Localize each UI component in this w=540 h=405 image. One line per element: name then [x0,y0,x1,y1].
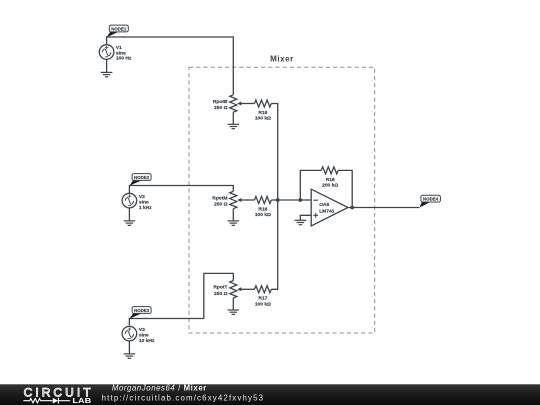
voltage source V1 (sine) [99,45,114,60]
resistor R16 100 kOhm [255,197,272,219]
svg-text:RpotM: RpotM [212,195,227,201]
wire RpotT wiper to R17 [240,288,255,290]
svg-text:R17: R17 [258,296,267,302]
svg-text:RpotB: RpotB [213,99,228,105]
svg-text:LM741: LM741 [319,209,335,215]
svg-text:NODE4: NODE4 [423,197,439,202]
svg-text:250 Ω: 250 Ω [214,291,228,297]
footer black bar [0,384,540,405]
potentiometer RpotM 250 Ohm [212,191,241,208]
CircuitLab logo resistor-diode wire [23,398,70,404]
wire NODE1 to RpotB top [107,37,234,95]
voltage source V2 (sine) [122,193,137,208]
resistor R18 200 kOhm [321,167,338,189]
potentiometer RpotT 250 Ohm [213,281,241,298]
wire RpotM wiper to R16 [240,199,255,201]
svg-text:NODE1: NODE1 [111,26,127,31]
wire RpotT bottom to ground [232,298,234,310]
label V1 sine 100 Hz [116,45,132,61]
svg-text:sine: sine [116,50,126,56]
label V2 sine 1 kHz [139,194,152,211]
ground (below V3) [124,354,135,358]
ground (below V1) [101,72,113,76]
svg-text:NODE3: NODE3 [134,308,150,313]
junction node (feedback tap) [298,198,302,202]
svg-text:LAB: LAB [72,396,92,405]
wire RpotB wiper to R15 [240,103,255,105]
wire op-amp output to NODE4 [348,207,419,209]
svg-text:100 kΩ: 100 kΩ [255,301,271,307]
svg-text:250 Ω: 250 Ω [214,202,228,208]
wire RpotB bottom to ground [232,112,234,124]
svg-text:250 Ω: 250 Ω [214,105,228,111]
wire R16 to op-amp inverting input [271,199,311,201]
svg-text:sine: sine [139,332,149,338]
junction node (summing, R15/R17 join) [276,198,280,202]
CircuitLab logo diode arrow [53,398,58,404]
dashed subcircuit box "Mixer" [189,54,375,333]
op-amp OA6 LM741 [311,189,348,226]
svg-text:100 Hz: 100 Hz [116,56,132,62]
svg-text:V3: V3 [139,327,145,333]
ground (below V2) [124,221,135,225]
resistor R17 100 kOhm [255,286,272,308]
ground (below RpotB) [228,124,240,128]
wire op-amp non-inverting input to ground [300,215,311,220]
svg-text:200 kΩ: 200 kΩ [322,182,338,188]
voltage source V3 (sine) [122,326,137,341]
svg-text:RpotT: RpotT [213,285,227,291]
net flag NODE2 [129,174,151,186]
junction node (op-amp output) [350,206,354,210]
svg-text:V1: V1 [116,45,122,51]
svg-text:V2: V2 [139,194,145,200]
svg-text:MorganJones64 / Mixer: MorganJones64 / Mixer [112,384,207,393]
ground (below RpotT) [228,310,240,314]
svg-text:http://circuitlab.com/c6xy42fx: http://circuitlab.com/c6xy42fxvhy53 [102,394,265,403]
svg-text:100 kΩ: 100 kΩ [255,116,271,122]
wire V2 to ground [128,208,130,221]
svg-text:OA6: OA6 [319,202,329,208]
wire RpotM bottom to ground [232,209,234,221]
svg-text:Mixer: Mixer [270,54,294,63]
resistor R15 100 kOhm [255,100,272,122]
ground (below RpotM) [228,221,240,225]
feedback wire to R18 [300,170,321,200]
svg-text:R16: R16 [258,206,267,212]
svg-text:R18: R18 [326,177,335,183]
net flag NODE1 [107,25,129,37]
ground (op-amp + input) [295,220,307,224]
wire R17 up to summing node [271,200,277,289]
label V3 sine 10 kHz [139,327,155,344]
potentiometer RpotB 250 Ohm [213,95,242,112]
svg-text:10 kHz: 10 kHz [139,338,155,344]
net flag NODE3 [129,307,151,319]
wire NODE2 to RpotM top [129,186,233,194]
wire NODE3 to RpotT top [129,273,233,325]
svg-text:R15: R15 [258,110,267,116]
svg-text:100 kΩ: 100 kΩ [255,212,271,218]
svg-text:sine: sine [139,199,149,205]
wire R15 to summing node [271,104,277,201]
svg-text:1 kHz: 1 kHz [139,205,152,211]
wire V3 to ground [128,341,130,354]
svg-text:NODE2: NODE2 [134,175,150,180]
feedback wire R18 to output [338,170,352,207]
wire V1 to ground [106,59,108,72]
net flag NODE4 [419,195,440,207]
